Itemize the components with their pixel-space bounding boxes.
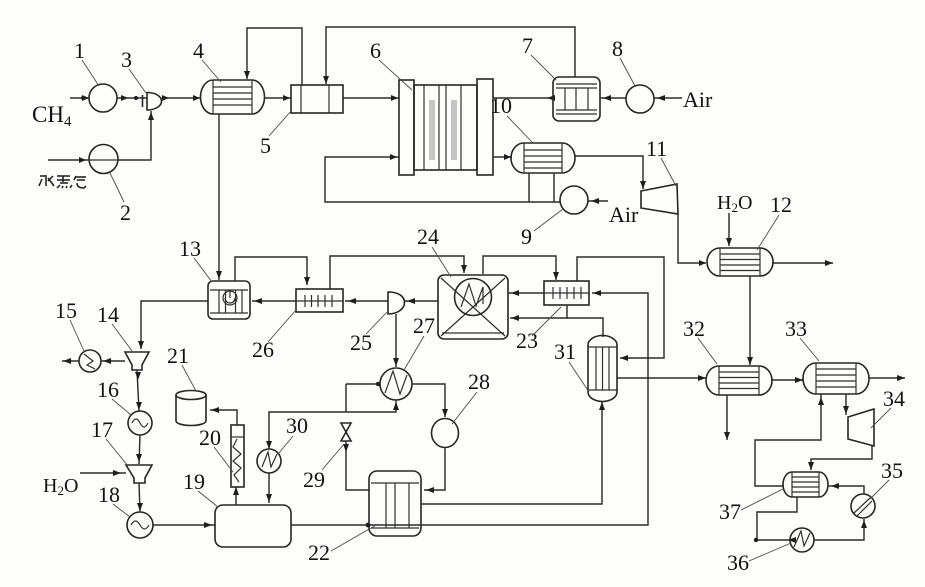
label 23	[516, 307, 561, 353]
wire heat exchanger 27 left to valve branch	[346, 382, 380, 412]
label 17	[91, 417, 128, 466]
label 6	[370, 38, 412, 90]
absorber 33	[803, 363, 869, 394]
svg-text:23: 23	[516, 328, 538, 353]
wire pump 18 to tank 19	[153, 522, 215, 528]
expander 34	[848, 409, 874, 446]
svg-text:9: 9	[521, 224, 532, 249]
label 9	[521, 209, 563, 249]
wire absorber 32 bottom outlet	[724, 395, 730, 440]
wire column 31 outlet to absorber 32	[617, 375, 707, 381]
wire pump 16 to mixer 17	[136, 435, 142, 464]
wire blower 8 to cooler 7	[600, 95, 626, 101]
label 20	[199, 425, 233, 472]
label 33	[785, 316, 819, 361]
wire valve 29 to vessel 22	[343, 441, 369, 490]
cooler 23	[544, 281, 589, 305]
heat exchanger 10	[511, 143, 575, 173]
svg-text:12: 12	[770, 192, 792, 217]
wire Air inlet to blower 9	[588, 198, 608, 204]
svg-text:Air: Air	[609, 202, 639, 227]
label 29	[303, 444, 344, 492]
svg-text:H2O: H2O	[717, 192, 752, 215]
wire splitter 14 to pump 16	[135, 370, 142, 411]
wire exchanger 24 top to cooler 23 top	[483, 256, 559, 280]
svg-text:31: 31	[554, 339, 576, 364]
label 32	[683, 316, 717, 364]
svg-text:4: 4	[193, 38, 204, 63]
label 12	[757, 192, 792, 250]
wire cooler 23 bottom to exchanger 24 right and column 31 top	[510, 305, 603, 337]
wire pump 15 outlet	[62, 358, 79, 364]
label 22	[308, 524, 378, 565]
compressor 1	[89, 84, 117, 112]
svg-text:20: 20	[199, 425, 221, 450]
label 10	[490, 93, 533, 143]
wire top bus from cooler 7 to vessel 5	[323, 27, 575, 84]
svg-text:H2O: H2O	[43, 475, 78, 498]
label 28	[452, 369, 490, 424]
cooler 26	[296, 289, 343, 312]
svg-text:28: 28	[468, 369, 490, 394]
wire heat exchanger 27 to separator 28	[412, 384, 448, 417]
wire expander 11 to condenser 12	[678, 214, 706, 266]
label 13	[179, 236, 212, 282]
label 1	[74, 38, 99, 86]
separator 28	[432, 419, 459, 448]
svg-text:34: 34	[883, 386, 905, 411]
label 27	[404, 313, 435, 370]
label 4	[193, 38, 221, 82]
label 34	[871, 386, 905, 428]
valve 29	[341, 423, 351, 441]
label 15	[55, 298, 84, 351]
svg-text:33: 33	[785, 316, 807, 341]
label 36	[727, 543, 791, 575]
wire expander 34 to heat exchanger 37 top	[808, 446, 872, 470]
label 16	[97, 377, 131, 415]
svg-text:14: 14	[97, 302, 119, 327]
pump 16	[128, 411, 152, 435]
absorber 32	[706, 366, 772, 395]
svg-text:11: 11	[646, 136, 667, 161]
mixer 17	[126, 465, 152, 483]
svg-text:37: 37	[719, 499, 741, 524]
svg-text:30: 30	[286, 413, 308, 438]
wire cooler 7 to reactor 6	[493, 95, 555, 101]
wire compressor 1 to mixer 3	[117, 95, 147, 101]
wire Air inlet to blower 8	[654, 95, 682, 101]
text H2O top label	[717, 192, 752, 215]
label 2	[110, 173, 131, 225]
svg-text:Air: Air	[683, 87, 713, 112]
svg-text:22: 22	[308, 540, 330, 565]
label 37	[719, 489, 783, 524]
wire splitter 14 to pump 15	[101, 358, 125, 364]
wire stripper 20 to tank 21	[210, 407, 237, 425]
text Air top label	[683, 87, 713, 112]
label 21	[167, 343, 196, 391]
vessel 13	[208, 281, 250, 319]
heat exchanger 37	[783, 472, 828, 497]
svg-text:6: 6	[370, 38, 381, 63]
svg-text:CH4: CH4	[32, 102, 72, 130]
pump 15	[79, 350, 101, 372]
wire recycle main line from tank 19 through vessel 22 to cooler 23	[291, 290, 648, 527]
splitter 14	[125, 352, 149, 370]
wire vessel 22 to column 31	[421, 402, 605, 504]
tank 21	[176, 391, 206, 426]
label 19	[183, 469, 218, 507]
svg-text:2: 2	[120, 200, 131, 225]
air cooler 7	[553, 77, 600, 121]
wire heat exchanger 10 to expander 11	[575, 156, 646, 189]
wire heat exchanger 10 drains	[529, 173, 554, 202]
wire reactor 6 to heat exchanger 10	[493, 154, 512, 160]
svg-text:29: 29	[303, 467, 325, 492]
wire heat exchanger 4 bottom to vessel 13	[216, 114, 222, 280]
label 8	[612, 36, 635, 86]
wire vessel 13 to splitter 14	[138, 301, 208, 349]
wire air return from blower 9 to reactor 6	[325, 154, 560, 202]
expander 11	[641, 184, 678, 214]
svg-text:35: 35	[881, 458, 903, 483]
svg-text:16: 16	[97, 377, 119, 402]
text Air middle label	[609, 202, 639, 227]
wire vessel 13 top to cooler 26 top	[235, 257, 310, 285]
wire absorber 33 to expander 34	[843, 394, 849, 415]
wire cooler 36 to compressor 35	[814, 519, 867, 540]
vessel 5	[291, 85, 343, 113]
label 7	[522, 33, 556, 80]
text CH4 feed label	[32, 102, 72, 130]
wire absorber 33 product outlet	[869, 375, 905, 381]
text H2O left label	[43, 475, 78, 498]
wire CH4 inlet to compressor 1	[70, 95, 89, 101]
svg-text:17: 17	[91, 417, 113, 442]
blower 8	[626, 85, 654, 113]
label 25	[350, 312, 387, 355]
label 31	[554, 339, 589, 392]
svg-text:25: 25	[350, 330, 372, 355]
heat exchanger 27	[380, 368, 412, 400]
svg-text:3: 3	[121, 47, 132, 72]
wire pump 2 to mixer 3 bottom	[118, 111, 154, 160]
reactor 6	[399, 79, 493, 175]
label 18	[98, 482, 130, 517]
label 26	[252, 310, 296, 362]
svg-text:10: 10	[490, 93, 512, 118]
compressor 35	[851, 494, 875, 518]
svg-text:18: 18	[98, 482, 120, 507]
wire absorber 33 bottom to heat exchanger 37 left	[755, 394, 824, 486]
wire exchanger 24 to blower 25	[405, 298, 439, 304]
wire H2O inlet to condenser 12	[726, 213, 732, 246]
svg-text:13: 13	[179, 236, 201, 261]
wire steam inlet to pump 2	[48, 157, 89, 163]
wire heat exchanger 27 bottom manifold to pump 30	[266, 400, 399, 449]
svg-text:1: 1	[74, 38, 85, 63]
tank 19	[215, 505, 291, 547]
svg-text:8: 8	[612, 36, 623, 61]
label 35	[870, 458, 903, 499]
blower 25	[388, 292, 405, 314]
heat exchanger 4	[200, 80, 264, 114]
svg-text:5: 5	[260, 133, 271, 158]
cooler 36	[790, 528, 814, 552]
text water-vapor label (generated strokes)	[39, 175, 86, 188]
wire cooler 23 top to column 31 right	[577, 257, 664, 361]
wire cooler 23 to exchanger 24 upper	[508, 290, 544, 296]
label 24	[417, 224, 451, 277]
condenser 12	[707, 248, 773, 276]
wire condenser 12 gas outlet	[772, 260, 833, 266]
svg-text:24: 24	[417, 224, 439, 249]
label 30	[279, 413, 308, 453]
svg-text:21: 21	[167, 343, 189, 368]
wire blower 25 to cooler 26	[345, 298, 388, 304]
pump 2 (steam)	[89, 145, 118, 174]
wire pump 30 to tank 19	[266, 473, 272, 503]
blower 9	[560, 186, 588, 214]
wire vessel 5 to reactor 6	[343, 95, 399, 101]
wire blower 25 to heat exchanger 27	[393, 314, 399, 367]
wire mixer 3 to heat exchanger 4	[162, 95, 202, 101]
wire H2O inlet to mixer 17	[80, 470, 126, 476]
svg-text:15: 15	[55, 298, 77, 323]
label 11	[646, 136, 676, 186]
column 31	[588, 336, 617, 402]
wire heat exchanger 4 to vessel 5	[264, 95, 291, 101]
pump 18	[127, 512, 153, 538]
wire compressor 35 to heat exchanger 37	[828, 483, 864, 494]
label 14	[97, 302, 132, 351]
label 3	[121, 47, 146, 93]
wire condenser 12 bottom to absorber 32	[747, 276, 753, 365]
svg-text:26: 26	[252, 337, 274, 362]
exchanger 24	[438, 275, 508, 339]
wire heat exchanger 37 bottom to cooler 36	[754, 497, 797, 543]
wire tank 19 to stripper 20	[233, 487, 239, 505]
svg-text:7: 7	[522, 33, 533, 58]
wire cooler 26 top to exchanger 24 top	[330, 256, 467, 289]
pump 30	[257, 449, 281, 473]
mixer 3	[143, 93, 162, 111]
svg-text:27: 27	[413, 313, 435, 338]
svg-text:32: 32	[683, 316, 705, 341]
wire top bus from vessel 5 to heat exchanger 4	[244, 28, 302, 85]
stripper 20	[231, 425, 244, 487]
svg-text:36: 36	[727, 550, 749, 575]
wire separator 28 to vessel 22	[424, 448, 445, 494]
svg-text:19: 19	[183, 469, 205, 494]
vessel 22	[369, 471, 421, 536]
wire cooler 26 to vessel 13	[252, 298, 296, 304]
wire absorber 32 to absorber 33	[771, 377, 804, 383]
wire mixer 17 to pump 18	[137, 483, 143, 512]
label 5	[260, 111, 291, 158]
